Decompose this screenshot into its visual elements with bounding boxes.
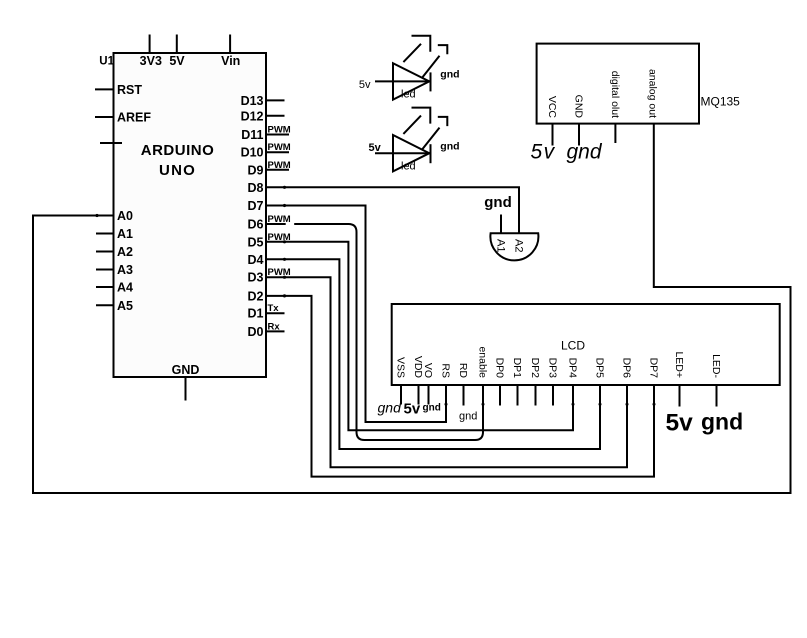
pin D0 Rx — [248, 321, 285, 339]
pin A4 — [96, 281, 133, 295]
svg-text:A1: A1 — [117, 227, 133, 241]
buzzer BZ1 — [484, 194, 538, 260]
svg-text:DP0: DP0 — [494, 358, 506, 379]
pin D6 PWM — [248, 214, 291, 232]
pin Vin — [221, 35, 240, 69]
wire D4 to LCD DP5 — [266, 259, 600, 449]
svg-text:RD: RD — [457, 363, 469, 379]
svg-text:3V3: 3V3 — [140, 54, 162, 68]
svg-text:D7: D7 — [248, 199, 264, 213]
svg-text:D12: D12 — [241, 109, 264, 123]
pin DP2 — [529, 358, 541, 406]
svg-text:analog out: analog out — [647, 69, 659, 118]
svg-text:A5: A5 — [117, 299, 133, 313]
svg-text:5v: 5v — [369, 142, 382, 154]
svg-text:digital olut: digital olut — [609, 71, 621, 118]
svg-text:GND: GND — [573, 95, 585, 119]
cathode bar — [430, 72, 432, 91]
svg-text:5v: 5v — [531, 141, 556, 164]
svg-text:DP3: DP3 — [547, 358, 559, 379]
svg-text:D13: D13 — [241, 94, 264, 108]
wire D7 to LCD RS — [266, 206, 446, 423]
svg-text:D2: D2 — [248, 289, 264, 303]
junction A0 pin end — [95, 214, 98, 217]
svg-text:LED-: LED- — [710, 354, 722, 378]
svg-text:gnd: gnd — [701, 409, 743, 435]
svg-text:Vin: Vin — [221, 54, 240, 68]
pin D10 PWM — [241, 142, 291, 160]
svg-text:Tx: Tx — [268, 303, 280, 314]
svg-text:gnd: gnd — [459, 411, 477, 423]
pin GND — [573, 95, 585, 146]
svg-text:AREF: AREF — [117, 111, 151, 125]
pin D5 PWM — [248, 232, 291, 250]
pin VO — [422, 363, 434, 405]
wire 5v anode — [375, 80, 431, 82]
svg-text:D5: D5 — [248, 235, 264, 249]
svg-text:LED+: LED+ — [673, 351, 685, 378]
svg-text:ARDUINO: ARDUINO — [141, 142, 215, 159]
svg-text:VSS: VSS — [395, 357, 407, 378]
svg-text:GND: GND — [172, 363, 200, 377]
pin D3 PWM — [248, 267, 291, 285]
LED LED2 (bottom) — [369, 108, 460, 173]
svg-text:gnd: gnd — [440, 140, 459, 152]
svg-text:D11: D11 — [241, 128, 263, 142]
svg-text:UNO: UNO — [159, 162, 196, 179]
svg-text:DP6: DP6 — [621, 358, 633, 379]
svg-text:D10: D10 — [241, 146, 264, 160]
pin 3V3 — [140, 35, 162, 69]
svg-text:DP4: DP4 — [567, 358, 579, 379]
svg-text:D0: D0 — [248, 325, 264, 339]
pin A3 — [96, 263, 133, 277]
pin A2 — [96, 245, 133, 259]
pin D9 PWM — [248, 160, 291, 178]
pin RST — [95, 83, 142, 97]
svg-text:D6: D6 — [248, 218, 264, 232]
emission arrow 2 — [422, 117, 447, 149]
svg-text:5v: 5v — [404, 401, 421, 418]
pin A1 — [96, 227, 133, 241]
pin AREF — [95, 111, 151, 125]
svg-text:MQ135: MQ135 — [701, 95, 741, 109]
pin VDD — [412, 356, 424, 405]
pin D12 — [241, 109, 285, 123]
svg-text:PWM: PWM — [268, 160, 291, 171]
svg-text:VCC: VCC — [546, 96, 558, 119]
pin D11 PWM — [241, 125, 291, 143]
svg-text:A0: A0 — [117, 209, 133, 223]
svg-text:A3: A3 — [117, 263, 133, 277]
pin VCC — [546, 96, 558, 146]
svg-text:gnd: gnd — [567, 141, 603, 164]
pin LED- — [710, 354, 722, 406]
pin A5 — [96, 299, 133, 313]
svg-text:DP1: DP1 — [511, 358, 523, 379]
wire D3 to LCD DP6 — [266, 277, 627, 467]
LCD module — [392, 304, 780, 385]
IC U1 Arduino UNO body — [114, 53, 267, 377]
svg-text:D3: D3 — [248, 271, 264, 285]
svg-text:5v: 5v — [359, 79, 371, 91]
svg-text:D1: D1 — [248, 307, 264, 321]
pin digital olut — [609, 71, 621, 143]
junction D5 pin end — [283, 240, 286, 243]
svg-text:gnd: gnd — [423, 403, 441, 414]
junction D3 pin end — [283, 276, 286, 279]
cathode bar — [430, 144, 432, 163]
svg-text:U1: U1 — [99, 56, 114, 68]
pin RD — [457, 363, 469, 406]
svg-text:RST: RST — [117, 83, 142, 97]
junction D2 pin end — [283, 294, 286, 297]
sensor MQ135 — [531, 44, 741, 164]
svg-text:A2: A2 — [117, 245, 133, 259]
junction D4 pin end — [283, 258, 286, 261]
svg-text:5V: 5V — [169, 54, 185, 68]
pin DP3 — [547, 358, 559, 406]
emission arrow 2 — [422, 45, 447, 78]
pin D13 — [241, 94, 285, 108]
junction D7 pin end — [283, 204, 286, 207]
junction dots LCD pin ends — [445, 403, 448, 406]
pin VSS — [395, 357, 407, 405]
emission arrow 1 — [403, 108, 430, 134]
svg-text:5v: 5v — [666, 410, 694, 437]
pin A1 stub — [500, 215, 502, 234]
diode triangle — [393, 135, 429, 171]
LED LED1 (top) — [359, 36, 460, 101]
wire D8 to buzzer A2 — [266, 187, 519, 233]
svg-text:PWM: PWM — [268, 125, 291, 136]
svg-text:VO: VO — [422, 363, 434, 378]
svg-text:gnd: gnd — [484, 194, 512, 211]
svg-text:led: led — [401, 89, 416, 101]
diode triangle — [393, 63, 429, 99]
wire D2 to LCD DP7 — [266, 296, 654, 477]
svg-text:DP2: DP2 — [529, 358, 541, 379]
svg-text:A4: A4 — [117, 281, 133, 295]
wire D6 to LCD enable (rounded corners) — [266, 224, 483, 440]
svg-text:RS: RS — [440, 363, 452, 378]
emission arrow 1 — [403, 36, 430, 62]
svg-text:PWM: PWM — [268, 142, 291, 153]
svg-text:DP5: DP5 — [594, 358, 606, 379]
svg-text:Rx: Rx — [268, 321, 281, 332]
svg-text:gnd: gnd — [378, 399, 403, 415]
wire A0 to MQ135 analog out — [33, 124, 791, 493]
svg-text:led: led — [401, 160, 416, 172]
svg-text:A2: A2 — [513, 239, 525, 252]
svg-text:gnd: gnd — [440, 69, 459, 81]
svg-text:enable: enable — [477, 346, 489, 378]
wire D5 to LCD DP4 — [266, 242, 573, 430]
svg-text:LCD: LCD — [561, 339, 585, 353]
pin DP1 — [511, 358, 523, 406]
svg-text:D4: D4 — [248, 253, 264, 267]
junction D8 pin end — [283, 186, 286, 189]
unlabeled left pin — [100, 142, 122, 144]
pin GND (Arduino bottom) — [172, 363, 200, 401]
svg-text:DP7: DP7 — [648, 358, 660, 379]
pin DP0 — [494, 358, 506, 406]
svg-text:D8: D8 — [248, 181, 264, 195]
svg-text:D9: D9 — [248, 163, 264, 177]
pin LED+ — [673, 351, 685, 406]
pin D1 Tx — [248, 303, 285, 321]
wire 5v anode — [375, 152, 431, 154]
pin 5V — [169, 35, 185, 69]
svg-text:A1: A1 — [495, 239, 507, 252]
